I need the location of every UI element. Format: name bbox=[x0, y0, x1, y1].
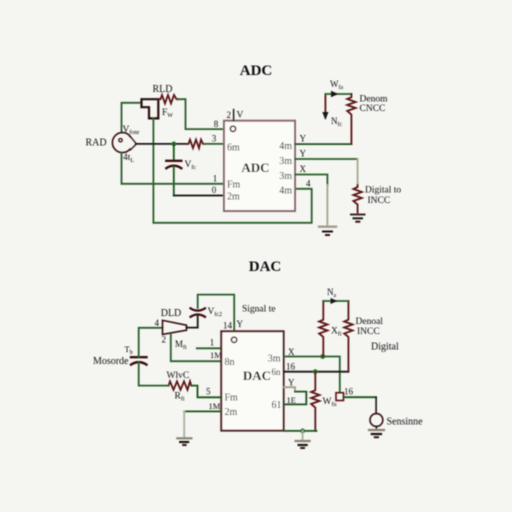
net label X bbox=[300, 164, 307, 174]
capacitor Vfc2 bbox=[191, 308, 206, 317]
chip pin label Fm bbox=[225, 393, 239, 404]
title ADC bbox=[240, 63, 273, 79]
chip pin label 61 bbox=[272, 400, 282, 411]
svg-text:1E: 1E bbox=[287, 395, 296, 405]
resistor Denoal INCC bbox=[344, 301, 352, 372]
source RAD (teardrop) bbox=[112, 133, 136, 153]
pin label 1 bbox=[210, 338, 215, 348]
pin label 14 bbox=[223, 321, 233, 331]
label WlvC bbox=[167, 371, 190, 381]
svg-text:RLD: RLD bbox=[153, 84, 173, 95]
node junction 16 / W_fu bbox=[313, 369, 318, 374]
current arrow W_fa bbox=[322, 91, 351, 120]
resistor WlvC / R_fi bbox=[169, 381, 192, 389]
label Mosorde bbox=[93, 356, 129, 367]
wire resistor to pin 3 bbox=[205, 143, 225, 145]
svg-text:Digital: Digital bbox=[371, 342, 399, 353]
net label 16 bbox=[286, 362, 296, 372]
label RAD bbox=[85, 138, 106, 149]
label X_fi bbox=[331, 327, 342, 338]
label Denom CNCC bbox=[360, 95, 389, 115]
svg-text:5: 5 bbox=[206, 387, 211, 397]
wire stub pin 1 bbox=[197, 347, 222, 349]
resistor Digital to INCC bbox=[353, 185, 361, 213]
svg-text:4m: 4m bbox=[279, 141, 292, 152]
wire cap bottom to resistor bbox=[139, 362, 169, 386]
svg-text:61: 61 bbox=[272, 400, 282, 411]
svg-text:Sensinne: Sensinne bbox=[387, 417, 424, 428]
wire N_a top link bbox=[323, 298, 348, 304]
chip pin label 4m (4) bbox=[279, 186, 292, 197]
label Sensinne bbox=[387, 417, 424, 428]
svg-text:3m: 3m bbox=[279, 171, 292, 182]
resistor X_fi bbox=[319, 301, 327, 357]
pin label 4 bbox=[155, 318, 160, 328]
chip pin label 6m bbox=[227, 143, 240, 154]
svg-text:Digital to: Digital to bbox=[365, 186, 401, 196]
connector 16 (small box) bbox=[336, 393, 344, 401]
label 4t_L bbox=[123, 153, 134, 164]
wire cap Vfc2 to pin 14 bbox=[198, 295, 235, 332]
chip pin label 2m bbox=[227, 192, 240, 203]
svg-text:16: 16 bbox=[344, 387, 354, 397]
svg-text:Y: Y bbox=[288, 378, 295, 388]
svg-text:2m: 2m bbox=[227, 192, 240, 203]
pin label 1M bbox=[209, 401, 221, 411]
pin 14 circle bbox=[231, 337, 236, 342]
pin label 3 bbox=[212, 134, 217, 144]
svg-text:3: 3 bbox=[212, 134, 217, 144]
svg-text:INCC: INCC bbox=[357, 327, 380, 337]
svg-text:8: 8 bbox=[214, 119, 219, 129]
pin label 2 bbox=[162, 335, 167, 345]
net label X bbox=[288, 347, 295, 357]
svg-text:Y: Y bbox=[300, 134, 307, 144]
svg-text:3m: 3m bbox=[268, 354, 281, 365]
svg-text:RAD: RAD bbox=[85, 138, 106, 149]
svg-text:WlvC: WlvC bbox=[167, 371, 190, 381]
svg-text:4: 4 bbox=[155, 318, 160, 328]
label M_ft bbox=[175, 339, 187, 351]
label Digital bbox=[371, 342, 399, 353]
wire resistor to pin Fm bbox=[191, 386, 221, 398]
svg-text:6n: 6n bbox=[272, 367, 282, 377]
chip pin label Fm bbox=[227, 180, 241, 191]
svg-text:Y: Y bbox=[237, 319, 244, 329]
wire pin 2m to ground bbox=[184, 411, 221, 437]
svg-text:CNCC: CNCC bbox=[360, 104, 386, 114]
label Vfc bbox=[185, 160, 197, 171]
ground (2m wire) bbox=[177, 438, 191, 445]
svg-text:Signal te: Signal te bbox=[242, 305, 276, 315]
wire X (3m) bbox=[284, 357, 340, 393]
resistor Denom CNCC bbox=[347, 94, 355, 144]
chip pin label 3m bbox=[268, 354, 281, 365]
label T_b bbox=[125, 344, 133, 356]
svg-text:0: 0 bbox=[212, 185, 217, 195]
pin label 5 bbox=[206, 387, 211, 397]
svg-text:3m: 3m bbox=[279, 156, 292, 167]
pin 2 top stub bbox=[230, 110, 235, 132]
label R_fi bbox=[175, 392, 185, 403]
label 2 V bbox=[227, 110, 244, 121]
wire DLD pin2 to pin 8n bbox=[171, 334, 222, 361]
svg-text:ADC: ADC bbox=[241, 160, 269, 175]
resistor RLD bbox=[158, 95, 177, 103]
label F_W bbox=[162, 108, 173, 119]
wire source tip to junction to resistor bbox=[136, 143, 187, 145]
wire Y2 to resistor bbox=[295, 159, 358, 185]
capacitor Mosorde bbox=[131, 357, 147, 364]
chip pin label 8n bbox=[225, 357, 235, 368]
node junction ground bbox=[300, 429, 305, 434]
chip pin label 2m bbox=[225, 407, 238, 418]
pin label 8 bbox=[214, 119, 219, 129]
chip pin label 6n bbox=[272, 367, 282, 377]
label RLD bbox=[153, 84, 173, 95]
chip pin label 3m (X) bbox=[279, 171, 292, 182]
op-amp U1 ADC chip body bbox=[224, 121, 295, 211]
svg-text:Denoal: Denoal bbox=[356, 317, 384, 327]
label W_fa bbox=[330, 79, 343, 91]
svg-text:V: V bbox=[237, 111, 244, 121]
net label 1E bbox=[287, 395, 296, 405]
svg-text:DAC: DAC bbox=[243, 368, 271, 383]
svg-text:INCC: INCC bbox=[368, 196, 391, 206]
label Vfc2 bbox=[208, 307, 223, 318]
svg-text:X: X bbox=[300, 164, 307, 174]
net label Y bbox=[300, 149, 307, 159]
net label Y bbox=[300, 134, 307, 144]
svg-text:X: X bbox=[288, 347, 295, 357]
wire box to Sensinne bbox=[344, 397, 377, 413]
wire Y1 bbox=[295, 143, 351, 145]
svg-text:2: 2 bbox=[162, 335, 167, 345]
label DLD bbox=[161, 308, 182, 319]
wire source bottom to pin Fm bbox=[122, 153, 225, 184]
label N_a bbox=[327, 287, 337, 299]
svg-text:Mosorde: Mosorde bbox=[93, 356, 129, 367]
chip pin label 3m (Y2) bbox=[279, 156, 292, 167]
label W_fu bbox=[323, 397, 337, 408]
wire cap top to DLD pin4 bbox=[139, 328, 163, 357]
pin label 1M (8n wire) bbox=[210, 350, 222, 360]
svg-text:DLD: DLD bbox=[161, 308, 182, 319]
svg-text:6m: 6m bbox=[227, 143, 240, 154]
node junction (source/cap) bbox=[171, 142, 176, 147]
svg-text:DAC: DAC bbox=[249, 259, 282, 275]
resistor (pin 3 series) bbox=[187, 140, 205, 148]
chip name DAC bbox=[243, 368, 271, 383]
op-amp U2 DAC chip body bbox=[221, 331, 283, 430]
label 16 bbox=[344, 387, 354, 397]
wire 16 (6n) bbox=[284, 371, 349, 373]
chip name ADC bbox=[241, 160, 269, 175]
wire Y to 1E loop bbox=[284, 387, 307, 404]
net label Y bbox=[288, 378, 295, 388]
wire RLD to pin 8 bbox=[178, 99, 225, 129]
svg-text:Denom: Denom bbox=[360, 95, 389, 105]
transistor F_W (L-shaped body) bbox=[142, 99, 159, 118]
chip pin label 4m (Y1) bbox=[279, 141, 292, 152]
capacitor Vfc bbox=[166, 144, 181, 196]
label Digital to INCC bbox=[365, 186, 401, 207]
node junction X / X_fi bbox=[320, 354, 325, 359]
net label 4 bbox=[306, 179, 311, 189]
svg-text:Fm: Fm bbox=[227, 180, 241, 191]
label N_fc bbox=[331, 116, 342, 128]
svg-text:1: 1 bbox=[213, 174, 218, 184]
source Sensinne bbox=[370, 414, 383, 427]
wire X to ground bbox=[295, 175, 327, 225]
resistor W_fu bbox=[311, 372, 319, 431]
buffer DLD (trapezoid) bbox=[163, 320, 187, 334]
svg-text:2m: 2m bbox=[225, 407, 238, 418]
svg-text:14: 14 bbox=[223, 321, 233, 331]
wire DLD out to cap Vfc2 bbox=[187, 315, 198, 328]
svg-text:Y: Y bbox=[300, 149, 307, 159]
svg-text:Fm: Fm bbox=[225, 393, 239, 404]
svg-text:8n: 8n bbox=[225, 357, 235, 368]
wire cap bottom to pin 2m bbox=[174, 195, 224, 197]
title DAC bbox=[249, 259, 282, 275]
ground (below Digital to INCC) bbox=[351, 215, 365, 222]
svg-text:16: 16 bbox=[286, 362, 296, 372]
label Signal te bbox=[242, 305, 276, 315]
ground (X wire, tan) bbox=[319, 227, 336, 235]
wire L-shape bottom loop to pin 4m bbox=[153, 118, 311, 222]
ground (chip bottom) bbox=[296, 431, 310, 448]
svg-text:4m: 4m bbox=[279, 186, 292, 197]
net label Y (pin14) bbox=[237, 319, 244, 329]
svg-text:1: 1 bbox=[210, 338, 215, 348]
svg-text:1M: 1M bbox=[209, 401, 221, 411]
svg-text:2: 2 bbox=[227, 110, 232, 120]
svg-text:ADC: ADC bbox=[240, 63, 273, 79]
label Vfonr bbox=[123, 125, 140, 136]
label Denoal INCC bbox=[356, 317, 384, 337]
ground (Sensinne) bbox=[369, 426, 384, 437]
svg-text:4: 4 bbox=[306, 179, 311, 189]
pin label 1 bbox=[213, 174, 218, 184]
pin label 0 bbox=[212, 185, 217, 195]
wire chip bottom to W_fu bottom bbox=[284, 430, 317, 432]
wire source top to L-shape bbox=[122, 103, 142, 133]
